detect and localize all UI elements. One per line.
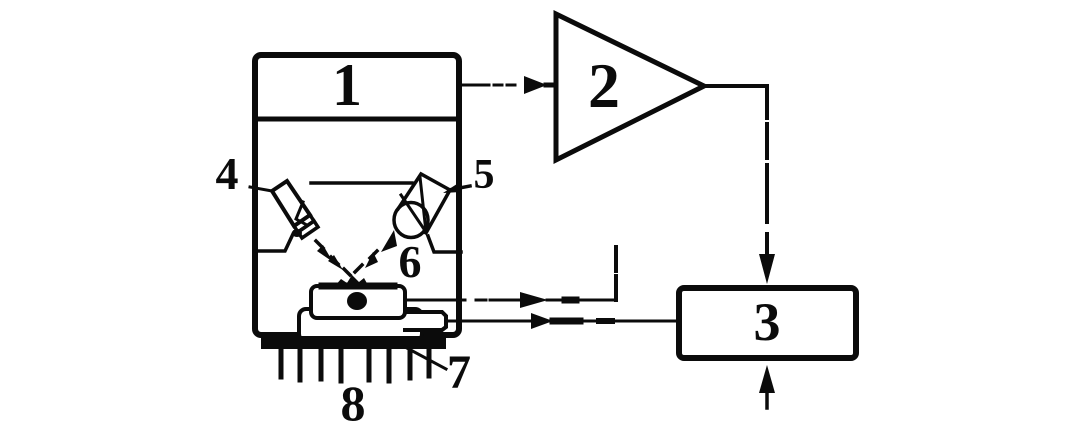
detector bracket xyxy=(428,236,461,252)
label 5 pointer xyxy=(449,186,470,190)
svg-text:7: 7 xyxy=(447,346,471,399)
compartment divider xyxy=(255,117,459,122)
reflected beam chevron 1 xyxy=(365,252,378,268)
reflected beam chevron 2 xyxy=(381,230,397,252)
stub wire up xyxy=(614,247,618,300)
lamp 4 neck band 1 xyxy=(294,215,314,232)
comb tooth 7 xyxy=(408,349,413,378)
incident beam chevron 1 xyxy=(317,245,333,262)
arrow into box3 bottom xyxy=(765,392,769,408)
detector fan line a xyxy=(420,177,426,232)
comb tooth 4 xyxy=(339,349,344,381)
reflected beam dashes xyxy=(355,251,377,272)
svg-text:3: 3 xyxy=(754,292,781,352)
wire down to box 3 (partly dashed) xyxy=(765,86,769,253)
incident beam chevron 2 xyxy=(328,255,343,270)
svg-text:1: 1 xyxy=(332,52,362,118)
stage base xyxy=(299,309,422,341)
lamp bracket xyxy=(255,234,293,251)
arrowhead into box 3 top xyxy=(759,254,775,284)
detector 5 body xyxy=(398,174,450,233)
svg-text:5: 5 xyxy=(474,152,495,198)
detector fan line b xyxy=(401,195,426,232)
comb tooth 1 xyxy=(279,349,284,377)
base extension xyxy=(405,312,446,330)
wire thermocouple upper xyxy=(368,299,616,302)
arrowhead on lower wire xyxy=(531,313,553,329)
sample tufts xyxy=(334,275,369,287)
incident beam dashes xyxy=(316,241,350,275)
amplifier 2 xyxy=(556,14,704,160)
comb tooth 2 xyxy=(298,349,303,380)
shelf line xyxy=(311,181,412,185)
label 7 pointer xyxy=(405,347,446,369)
heater bar xyxy=(261,336,446,349)
wire amplifier output horizontal xyxy=(704,84,767,88)
sample dot xyxy=(347,292,367,310)
lamp 4 neck band 2 xyxy=(298,221,318,238)
arrowhead into amplifier xyxy=(524,76,547,94)
comb tooth 8 xyxy=(427,349,432,376)
label 5 pointer arrowhead xyxy=(443,182,461,193)
svg-text:6: 6 xyxy=(399,236,422,287)
lamp base blob xyxy=(292,229,302,237)
lamp inner notch xyxy=(296,202,305,224)
pointer line label 4 xyxy=(250,187,272,191)
comb tooth 3 xyxy=(319,349,324,379)
arrowhead on upper wire xyxy=(520,292,548,308)
box 3 xyxy=(679,288,856,358)
svg-text:4: 4 xyxy=(216,148,239,199)
wire box3 to box1 lower xyxy=(446,320,679,323)
enclosure box 1 xyxy=(255,55,459,335)
svg-text:8: 8 xyxy=(341,375,366,430)
detector 5 lens xyxy=(394,203,428,238)
stage top thick edge xyxy=(322,283,394,290)
svg-text:2: 2 xyxy=(588,50,620,121)
sample stage xyxy=(311,286,405,318)
comb tooth 5 xyxy=(367,349,372,380)
lamp 4 body xyxy=(272,181,310,226)
comb tooth 6 xyxy=(387,349,392,381)
wire box1 to amplifier xyxy=(462,84,556,87)
